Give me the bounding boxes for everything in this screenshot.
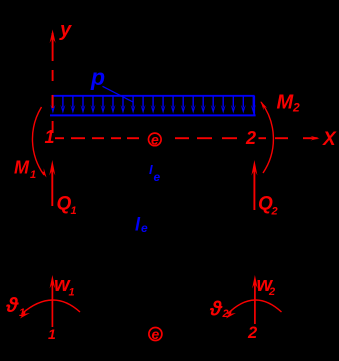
- svg-text:M: M: [277, 92, 295, 114]
- svg-text:1: 1: [45, 127, 55, 147]
- svg-text:2: 2: [271, 206, 278, 218]
- svg-text:y: y: [59, 19, 72, 41]
- svg-text:M: M: [14, 158, 30, 178]
- svg-text:ϑ: ϑ: [5, 294, 19, 317]
- svg-text:2: 2: [292, 101, 300, 115]
- svg-text:1: 1: [19, 307, 25, 319]
- svg-text:2: 2: [247, 324, 257, 342]
- svg-text:2: 2: [245, 128, 256, 148]
- svg-text:e: e: [152, 326, 160, 342]
- svg-text:1: 1: [48, 326, 56, 342]
- svg-text:2: 2: [222, 308, 229, 320]
- svg-text:I: I: [149, 162, 153, 177]
- svg-text:1: 1: [69, 287, 75, 299]
- svg-text:1: 1: [30, 169, 36, 181]
- svg-text:e: e: [154, 170, 161, 184]
- svg-text:e: e: [151, 132, 159, 148]
- svg-text:ϑ: ϑ: [209, 298, 223, 321]
- svg-text:e: e: [141, 221, 148, 235]
- svg-text:Q: Q: [57, 194, 72, 215]
- svg-text:1: 1: [71, 205, 77, 217]
- svg-text:2: 2: [268, 286, 275, 298]
- svg-text:X: X: [322, 129, 337, 150]
